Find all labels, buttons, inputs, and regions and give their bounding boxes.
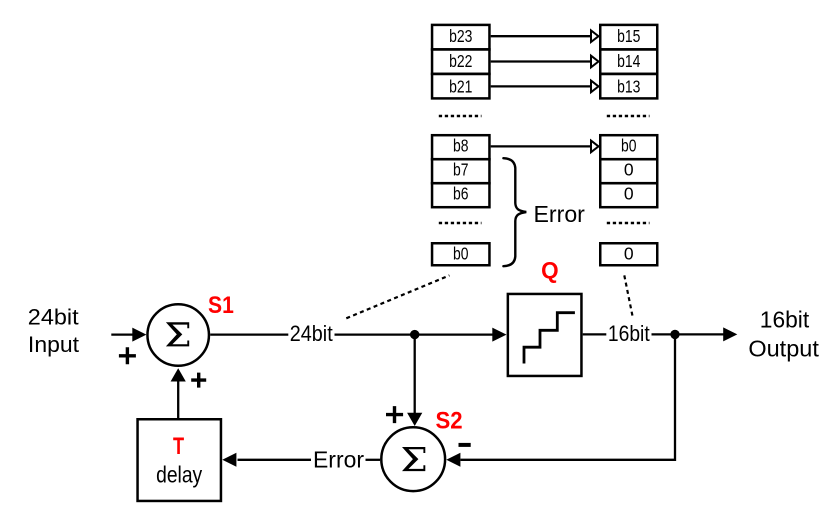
bit box b13 bbox=[600, 74, 657, 99]
summing node S2 bbox=[381, 427, 445, 491]
bit box b0 right bbox=[600, 135, 657, 159]
svg-text:b8: b8 bbox=[453, 136, 469, 156]
svg-text:0: 0 bbox=[624, 160, 634, 180]
dashed separator left bottom bbox=[439, 222, 482, 225]
wire b22 to b14 bbox=[491, 56, 599, 68]
wire T up to S1 bbox=[171, 368, 186, 418]
dotted leader left bbox=[346, 275, 449, 318]
svg-text:T: T bbox=[173, 433, 184, 460]
minus sign S2 bbox=[459, 443, 471, 447]
wire node A down to S2 bbox=[407, 335, 422, 426]
wire input to S1 bbox=[111, 328, 146, 342]
label 16bit Output bbox=[748, 306, 819, 361]
svg-text:b22: b22 bbox=[449, 51, 472, 71]
label 24bit Input bbox=[28, 304, 79, 357]
delay block T bbox=[138, 419, 221, 501]
plus sign S2 top bbox=[386, 406, 403, 423]
svg-text:16bit: 16bit bbox=[760, 306, 810, 332]
svg-text:delay: delay bbox=[156, 461, 203, 487]
bit box b22 bbox=[432, 49, 489, 74]
brace error bits bbox=[503, 158, 526, 266]
svg-text:24bit: 24bit bbox=[290, 321, 333, 346]
bit box zero1 bbox=[600, 159, 657, 183]
svg-text:16bit: 16bit bbox=[608, 321, 650, 346]
svg-text:b7: b7 bbox=[453, 160, 469, 180]
bit box zero3 bbox=[600, 243, 657, 265]
wire Q to node B with 16bit label bbox=[583, 321, 672, 346]
dotted leader right bbox=[624, 275, 632, 317]
svg-text:Q: Q bbox=[541, 257, 559, 283]
svg-text:b15: b15 bbox=[617, 26, 640, 46]
svg-text:b14: b14 bbox=[617, 51, 641, 71]
bit box b15 bbox=[600, 25, 657, 50]
svg-text:24bit: 24bit bbox=[28, 304, 79, 329]
bit box b7 bbox=[432, 159, 489, 183]
quantizer Q bbox=[508, 294, 582, 376]
bit box b14 bbox=[600, 49, 657, 74]
svg-text:b0: b0 bbox=[453, 244, 469, 264]
bit box b0 left bbox=[432, 243, 489, 265]
plus sign T arrow bbox=[191, 373, 206, 388]
svg-text:b6: b6 bbox=[453, 184, 469, 204]
svg-text:b23: b23 bbox=[449, 26, 472, 46]
svg-text:Error: Error bbox=[534, 201, 586, 227]
bit box b6 bbox=[432, 183, 489, 207]
wire node B to output bbox=[675, 327, 737, 341]
svg-text:S1: S1 bbox=[208, 292, 234, 319]
wire node B down to S2 bbox=[446, 334, 675, 466]
svg-text:b21: b21 bbox=[449, 76, 472, 96]
wire node A to Q bbox=[415, 328, 507, 342]
svg-text:b13: b13 bbox=[617, 76, 640, 96]
summing node S1 bbox=[147, 304, 209, 366]
bit box b23 bbox=[432, 25, 489, 50]
svg-text:b0: b0 bbox=[621, 136, 637, 156]
node B junction bbox=[670, 330, 679, 339]
wire b21 to b13 bbox=[491, 81, 599, 93]
dashed separator left top bbox=[439, 115, 482, 118]
dashed separator right top bbox=[607, 115, 650, 118]
svg-text:0: 0 bbox=[624, 184, 634, 204]
bit box b8 bbox=[432, 135, 489, 159]
dashed separator right bottom bbox=[607, 222, 650, 225]
svg-text:S2: S2 bbox=[436, 408, 463, 435]
svg-text:Error: Error bbox=[313, 447, 364, 473]
svg-text:0: 0 bbox=[624, 244, 634, 264]
wire b8 to b0 bbox=[491, 141, 599, 153]
wire S1 to node A with 24bit label bbox=[210, 321, 412, 346]
wire S2 to T with Error label bbox=[222, 447, 380, 473]
plus sign input bbox=[119, 347, 136, 364]
bit box zero2 bbox=[600, 183, 657, 207]
wire b23 to b15 bbox=[491, 30, 599, 42]
svg-text:Output: Output bbox=[748, 336, 819, 362]
bit box b21 bbox=[432, 74, 489, 99]
svg-text:Input: Input bbox=[28, 332, 79, 357]
node A junction bbox=[410, 330, 419, 339]
